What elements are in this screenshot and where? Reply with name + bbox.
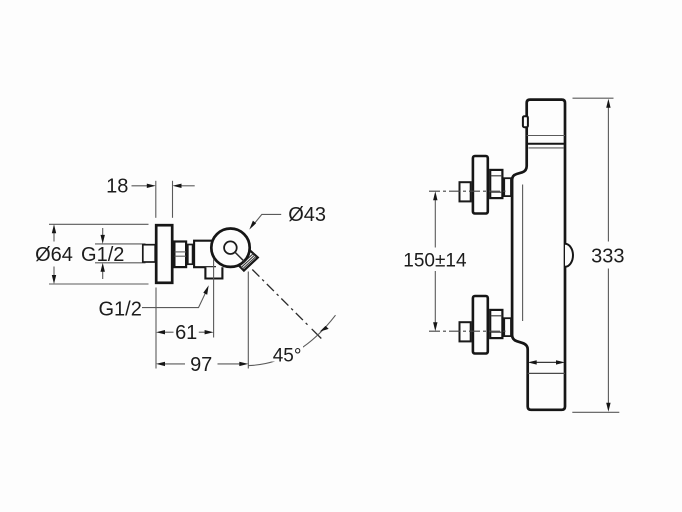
extension line Ø64 top [49,223,149,225]
leader line Ø43 [249,214,281,229]
extension line 333 top [573,97,614,99]
arrow G1/2 down-pointing [101,228,105,244]
spout (45 deg outlet) [237,251,258,271]
clip tab on left edge [523,116,528,127]
dimension 150+-14 line lower segment with arrow [433,271,437,331]
svg-text:45°: 45° [273,345,302,366]
coupling nut flat line upper [175,251,186,253]
extension line 333 bottom [572,411,619,413]
spout hatch lines [240,254,257,270]
leader line G1/2 lower [142,285,209,307]
bottom valve: supply square [460,322,471,341]
bar body outline [512,100,565,410]
bottom valve: nut flat lines [491,316,503,332]
dimension 18 right line with arrow [173,184,195,188]
internal width line with arrows [528,360,565,364]
extension line Ø64 bottom [49,283,149,285]
label 45deg [271,345,304,362]
svg-text:Ø64: Ø64 [35,244,73,266]
dimension 333 lower segment with arrow [606,269,610,412]
top valve: supply square [460,182,471,201]
extension line 97 right [247,272,249,369]
svg-text:61: 61 [175,322,197,344]
bottom valve: collar [504,318,511,336]
coupling nut flat line lower [175,255,186,257]
angular dimension arrowhead [320,326,329,332]
arrow Ø64 up [52,224,56,241]
extension line 18 left [155,181,157,218]
svg-text:18: 18 [106,175,128,197]
top valve: nut [490,170,502,198]
ring between nut and body [188,245,193,265]
hidden edge thin line [522,185,524,322]
svg-text:333: 333 [591,245,624,267]
bottom valve centerline [429,330,506,332]
top valve: collar [504,178,511,196]
svg-text:G1/2: G1/2 [99,299,142,321]
head circle Ø43 [211,229,249,267]
top valve centerline [429,190,506,192]
top valve: knob [473,156,488,214]
cap seam line thin [527,135,565,137]
coupling nut [174,242,186,268]
angular dimension arc 45 [248,315,335,365]
arrow G1/2 up-pointing [101,263,105,279]
extension line 61 right [213,259,215,338]
dimension 97 right arrow [218,362,249,366]
extension line G1/2 bottom [95,262,146,264]
inner knob circle [224,241,237,254]
dimension 333 upper segment with arrow [606,99,610,242]
arrow Ø64 down [52,267,56,285]
dimension 18 left line with arrow [132,184,156,188]
valve body [194,241,216,268]
dash-dot 45 deg axis line [252,270,321,339]
lower outlet port [205,267,222,278]
cap seam line lower thin [529,147,564,149]
svg-text:G1/2: G1/2 [81,244,124,266]
dimension 61 right arrow [199,330,214,334]
svg-text:150±14: 150±14 [403,250,467,271]
extension line 61/97 left [155,288,157,369]
supply pipe stub [143,245,155,262]
extension line 18 right [172,181,174,218]
bottom valve: knob [473,296,488,354]
extension line G1/2 top [95,243,146,245]
dimension 150+-14 line upper segment with arrow [433,191,437,247]
dimension 97 left arrow [156,362,185,366]
bump on right edge [565,244,573,267]
svg-text:97: 97 [190,354,212,376]
dimension 61 left arrow [156,330,174,334]
wall flange [156,225,172,283]
svg-text:Ø43: Ø43 [288,204,326,226]
radius line to spout [235,252,244,261]
top valve: nut flat lines [491,176,503,192]
lower seam line [528,372,565,374]
bottom valve: nut [490,310,502,338]
cap seam line thick [527,143,565,145]
